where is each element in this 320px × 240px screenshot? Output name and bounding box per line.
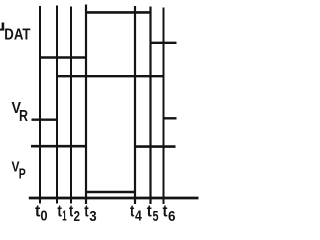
svg-text:4: 4	[135, 208, 142, 225]
svg-text:3: 3	[89, 208, 96, 224]
svg-text:1: 1	[62, 208, 66, 225]
label t0	[35, 203, 48, 225]
label t6	[163, 203, 176, 226]
wire V_P low level t3-t4	[85, 191, 136, 194]
svg-text:P: P	[19, 166, 26, 183]
svg-text:2: 2	[74, 208, 81, 224]
wire V_R low level after t6	[163, 117, 177, 119]
label V_R	[12, 100, 29, 125]
label t2	[69, 203, 80, 226]
node t6 gridline	[163, 8, 165, 205]
svg-text:t: t	[130, 203, 135, 221]
svg-text:t: t	[147, 203, 152, 221]
node t4 gridline	[134, 6, 136, 204]
node t3 gridline	[85, 5, 87, 205]
node t2 gridline	[70, 7, 72, 204]
wire V_R low level before t1	[32, 118, 59, 120]
wire time axis	[29, 197, 199, 200]
svg-text:0: 0	[40, 208, 47, 225]
node t0 gridline	[39, 6, 41, 204]
svg-text:5: 5	[153, 208, 159, 224]
label I_DAT	[0, 23, 31, 44]
svg-text:R: R	[19, 108, 28, 125]
wire I_DAT level after t5	[150, 42, 177, 44]
label t3	[84, 203, 96, 226]
svg-text:6: 6	[168, 208, 176, 224]
label t1	[57, 203, 66, 225]
node t5 gridline	[149, 7, 151, 205]
wire V_P high level after t4	[134, 145, 176, 148]
wire I_DAT level t0-t3	[39, 56, 87, 58]
label V_P	[12, 159, 26, 183]
wire V_R high level t1-t6	[56, 75, 165, 77]
wire V_P high level before t3	[31, 145, 87, 148]
svg-text:DAT: DAT	[4, 27, 30, 44]
wire I_DAT high level t3-t5	[85, 11, 152, 14]
node t1 gridline	[56, 6, 58, 204]
label t5	[147, 203, 159, 226]
label t4	[130, 203, 142, 225]
